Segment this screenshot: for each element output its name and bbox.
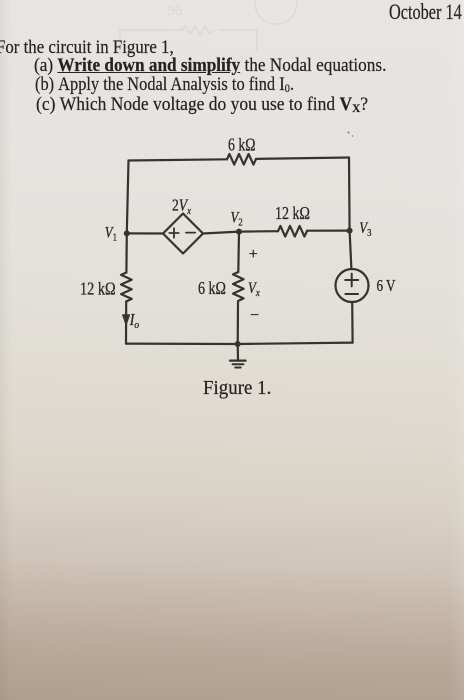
wire dependent source to V2 bbox=[203, 231, 278, 233]
wire middle resistor to bottom junction bbox=[237, 302, 240, 345]
resistor R 12k left vertical zigzag bbox=[121, 273, 132, 302]
wire left rail V1 to 12k resistor bbox=[125, 233, 128, 272]
svg-text:Vx: Vx bbox=[248, 280, 260, 300]
wire V3 to 6V source top bbox=[350, 231, 352, 269]
minus sign inside diamond bbox=[186, 232, 195, 234]
wire V2 down to middle resistor bbox=[237, 232, 240, 272]
svg-text:6 kΩ: 6 kΩ bbox=[198, 278, 226, 298]
voltage source 6V circle bbox=[336, 269, 369, 302]
svg-text:12 kΩ: 12 kΩ bbox=[80, 279, 116, 299]
bottom rail right segment bbox=[238, 343, 353, 344]
header date bbox=[389, 0, 462, 25]
svg-text:V3: V3 bbox=[359, 220, 371, 240]
node V3 junction dot bbox=[347, 228, 353, 234]
svg-text:V1: V1 bbox=[105, 224, 117, 244]
plus sign of 6V source bbox=[345, 274, 358, 287]
item (b) bbox=[35, 75, 294, 96]
wire left rail upper (top corner to V1) bbox=[127, 161, 129, 234]
figure caption bbox=[203, 378, 271, 400]
svg-text:2Vx: 2Vx bbox=[172, 196, 192, 217]
svg-text:Io: Io bbox=[129, 311, 139, 331]
minus sign of 6V source bbox=[345, 293, 358, 295]
node V1 junction dot bbox=[124, 230, 130, 236]
wire top rail left segment bbox=[129, 159, 228, 160]
svg-text:6 V: 6 V bbox=[377, 276, 397, 295]
resistor R 6k middle vertical zigzag bbox=[233, 272, 244, 301]
svg-text:V2: V2 bbox=[231, 209, 243, 229]
wire right rail upper (top corner to V3) bbox=[348, 158, 351, 231]
svg-text:6 kΩ: 6 kΩ bbox=[228, 135, 256, 155]
dependent source diamond 2Vx bbox=[163, 214, 203, 254]
ground stem bbox=[237, 344, 240, 360]
wire left rail below resistor to bottom corner bbox=[125, 302, 127, 344]
svg-text:−: − bbox=[250, 307, 259, 324]
ground bar 3 bbox=[235, 367, 240, 369]
wire 6V source bottom to rail bbox=[351, 302, 354, 343]
bottom junction dot at ground bbox=[235, 341, 241, 347]
resistor R top 6k zigzag bbox=[227, 154, 256, 165]
plus sign inside diamond bbox=[169, 228, 178, 237]
svg-text:12 kΩ: 12 kΩ bbox=[275, 203, 310, 223]
svg-text:96: 96 bbox=[167, 3, 183, 19]
node V2 junction dot bbox=[236, 229, 242, 235]
item (c) bbox=[36, 95, 368, 116]
problem statement line 1 bbox=[0, 38, 174, 59]
bottom rail left segment bbox=[126, 343, 238, 346]
item (a) bbox=[34, 56, 386, 77]
resistor R 12k horizontal zigzag bbox=[278, 226, 307, 237]
ground bar 1 bbox=[230, 360, 246, 362]
wire 12k resistor to V3 bbox=[307, 230, 350, 232]
wire V1 to dependent source bbox=[127, 232, 163, 234]
ground bar 2 bbox=[233, 363, 244, 365]
faint bleed-through marks (decorative) bbox=[120, 0, 297, 58]
wire top rail right segment bbox=[256, 158, 349, 159]
svg-text:+: + bbox=[249, 246, 258, 263]
current arrow Io head bbox=[123, 315, 130, 325]
